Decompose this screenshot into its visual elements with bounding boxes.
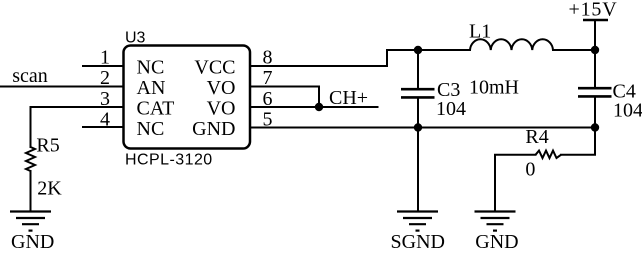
ground (middle GND near R4) [475, 212, 516, 231]
svg-text:NC: NC [137, 57, 165, 79]
capacitor C3 plates [401, 89, 435, 97]
node junction pin6/pin7 CH+ [315, 103, 323, 111]
wire pin5 GND net [250, 127, 595, 129]
wire +15V stem [594, 20, 596, 50]
inductor L1 [470, 39, 553, 50]
ground (bottom-left GND) [10, 212, 51, 231]
svg-text:4: 4 [100, 108, 110, 130]
svg-text:0: 0 [525, 158, 535, 180]
svg-text:U3: U3 [125, 30, 146, 47]
resistor R5 zigzag [26, 147, 35, 171]
node junction C3 top [414, 46, 422, 54]
wire R4 left lead to GND [495, 155, 536, 211]
svg-text:5: 5 [263, 108, 273, 130]
svg-text:HCPL-3120: HCPL-3120 [125, 152, 213, 169]
svg-text:SGND: SGND [391, 231, 445, 253]
svg-text:CH+: CH+ [329, 87, 368, 109]
svg-text:104: 104 [436, 98, 466, 120]
svg-text:VO: VO [207, 98, 236, 120]
wire pin1 stub [83, 65, 123, 67]
svg-text:2: 2 [100, 67, 110, 89]
svg-text:8: 8 [263, 47, 273, 69]
svg-text:R4: R4 [525, 126, 548, 148]
svg-text:10mH: 10mH [469, 77, 519, 99]
svg-text:R5: R5 [36, 135, 59, 157]
wire C4 top lead [594, 50, 596, 88]
svg-text:L1: L1 [469, 21, 491, 43]
wire R4 right lead [561, 128, 595, 155]
svg-text:GND: GND [192, 118, 235, 140]
node junction C4 bottom / R4 [591, 123, 599, 131]
svg-text:1: 1 [100, 47, 110, 69]
wire pin3 to R5 [31, 107, 124, 147]
svg-text:GND: GND [11, 231, 54, 253]
svg-text:7: 7 [263, 67, 273, 89]
wire pin4 stub [83, 126, 123, 128]
svg-text:104: 104 [613, 100, 642, 122]
wire pin7 down to pin6 net [250, 87, 319, 108]
svg-text:2K: 2K [37, 178, 62, 200]
svg-text:GND: GND [475, 231, 518, 253]
node junction +15V / L1 / C4 [591, 46, 599, 54]
power +15V bar [583, 19, 608, 21]
wire R5 bottom lead to GND [30, 171, 32, 211]
svg-text:NC: NC [137, 118, 165, 140]
wire top node right of L1 to +15V node [553, 49, 595, 51]
svg-text:+15V: +15V [569, 0, 618, 21]
wire C3 top lead [417, 50, 419, 89]
wire pin6 CH+ net [250, 106, 378, 108]
wire scan net to pin2 [0, 86, 123, 88]
svg-text:AN: AN [137, 77, 166, 99]
capacitor C4 plates [578, 88, 612, 96]
wire C4 bottom lead [594, 97, 596, 128]
svg-text:6: 6 [263, 88, 273, 110]
resistor R4 zigzag [536, 151, 562, 158]
svg-text:scan: scan [12, 65, 48, 87]
wire pin8 to top node [250, 50, 470, 66]
svg-text:VCC: VCC [194, 57, 235, 79]
svg-text:3: 3 [100, 88, 110, 110]
ground SGND [397, 212, 438, 231]
svg-text:VO: VO [207, 77, 236, 99]
svg-text:CAT: CAT [137, 98, 175, 120]
IC U3 optocoupler body [124, 46, 251, 149]
node junction C3 bottom / SGND [414, 123, 422, 131]
wire C3 bottom lead to SGND [417, 98, 419, 211]
